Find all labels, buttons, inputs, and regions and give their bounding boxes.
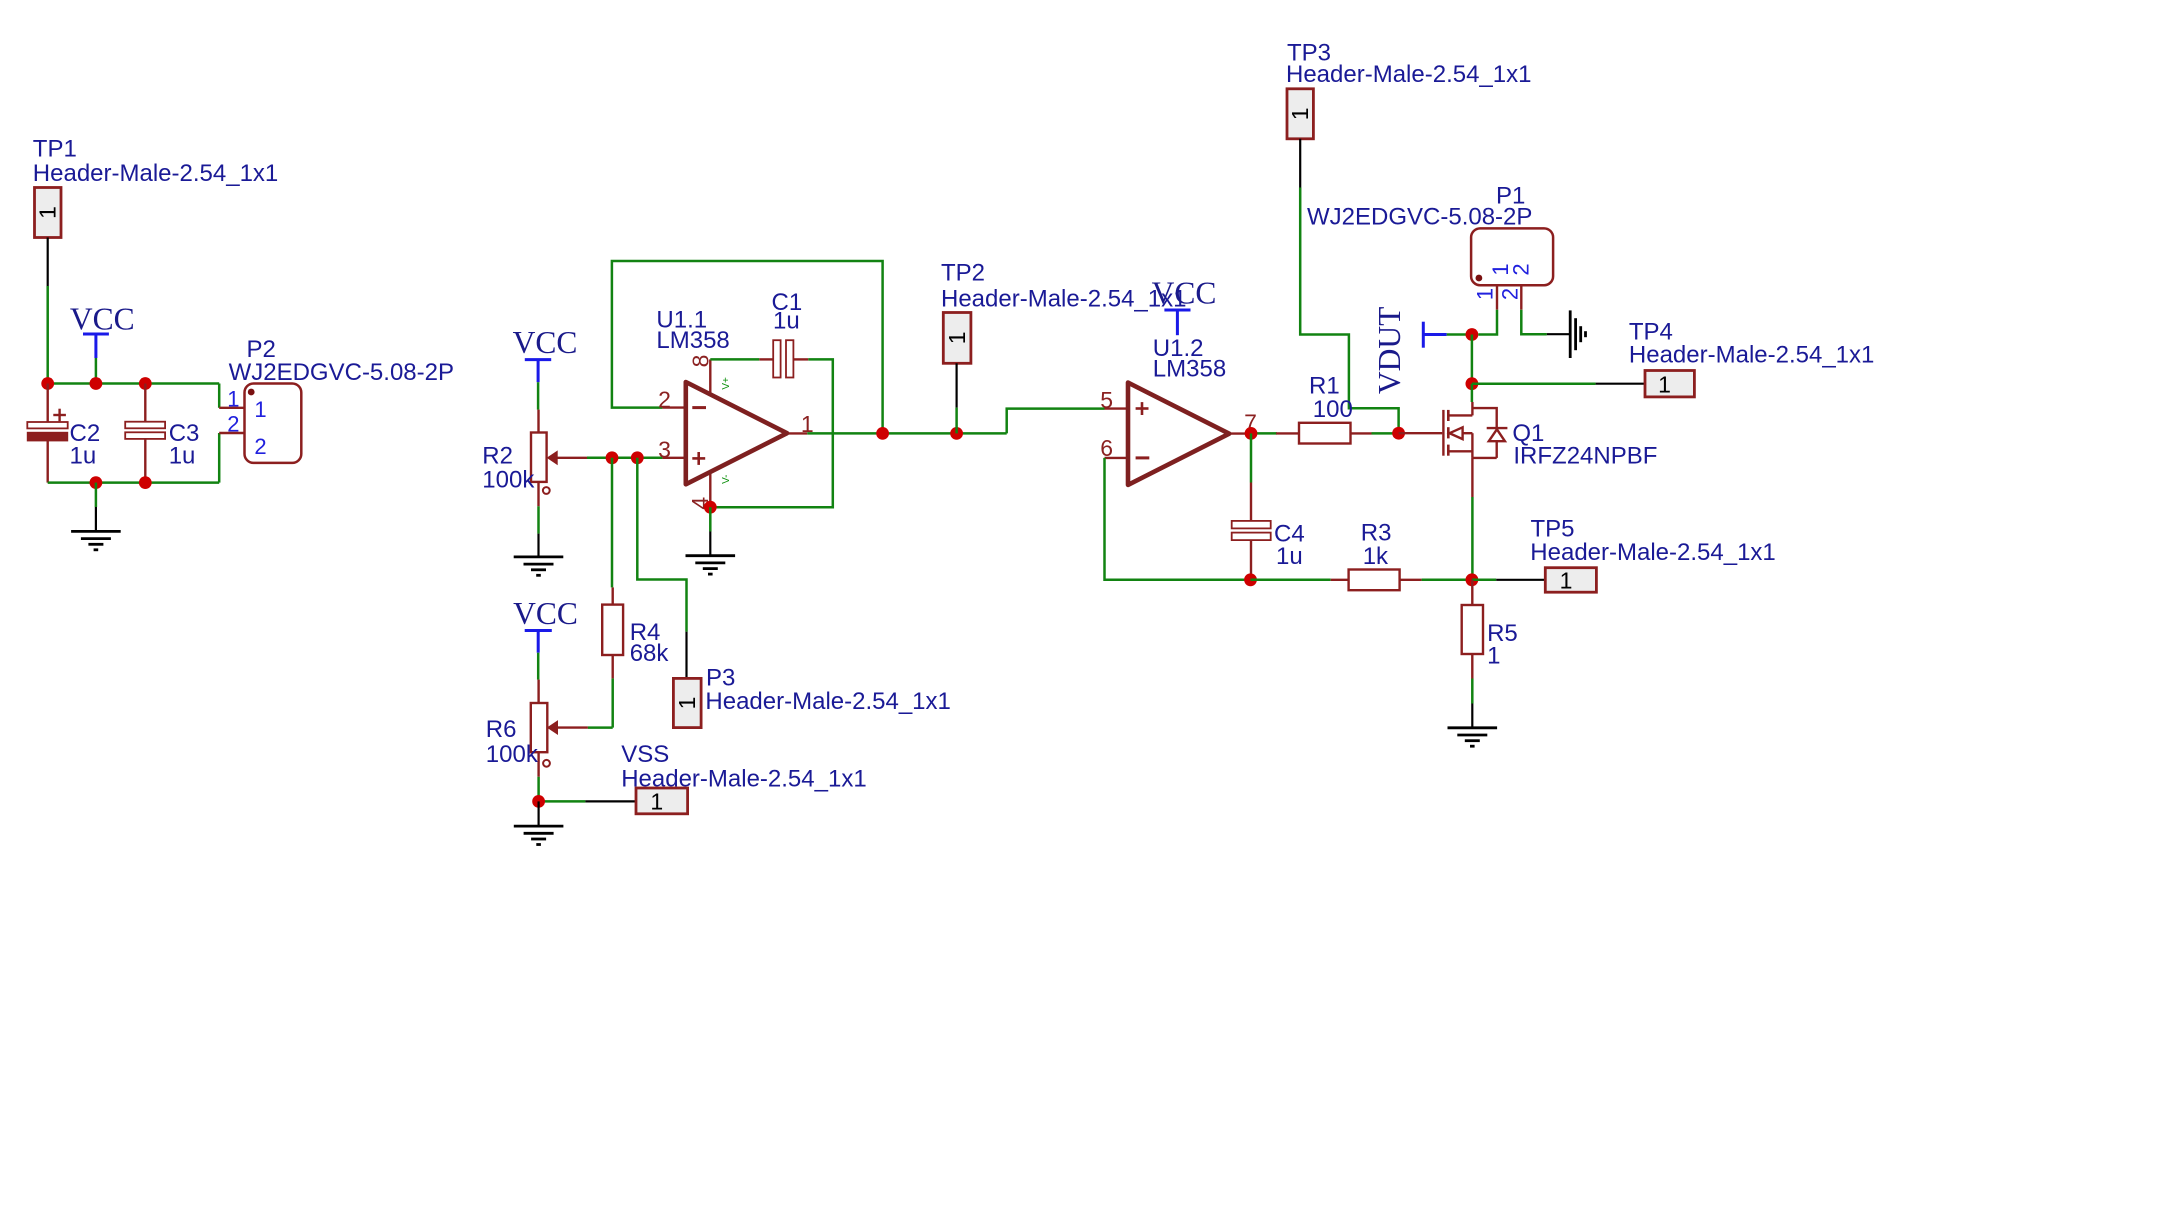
resistor R1 100 <box>1276 423 1371 444</box>
wire R2 wiper to node B <box>587 457 662 460</box>
svg-text:VCC: VCC <box>70 302 135 337</box>
svg-text:1: 1 <box>254 397 266 422</box>
wire pin4 node to ground <box>709 507 712 531</box>
header TP5 <box>1496 568 1596 594</box>
wire VCC to R2 <box>537 382 540 409</box>
svg-text:Header-Male-2.54_1x1: Header-Male-2.54_1x1 <box>705 688 950 715</box>
header TP3 <box>1287 89 1313 188</box>
svg-text:IRFZ24NPBF: IRFZ24NPBF <box>1513 443 1657 470</box>
svg-text:VDUT: VDUT <box>1372 307 1407 395</box>
ground (below R5) <box>1448 704 1498 747</box>
wire feedback loop (output to pin 2) <box>612 261 883 433</box>
op-amp U1.1 LM358 <box>662 359 807 507</box>
svg-text:3: 3 <box>658 436 671 462</box>
resistor R3 1k <box>1331 570 1422 591</box>
wire TP3 to gate node <box>1300 188 1398 434</box>
svg-text:5: 5 <box>1100 387 1113 413</box>
svg-text:100k: 100k <box>486 741 539 768</box>
svg-text:WJ2EDGVC-5.08-2P: WJ2EDGVC-5.08-2P <box>1307 203 1532 230</box>
wire C1 to pin 4 node <box>710 359 833 507</box>
wire R3 to source node <box>1422 579 1472 582</box>
wire to P2 pin 1 <box>218 384 221 408</box>
wire R2 bottom to ground <box>537 506 540 533</box>
junction node source (R3/R5/TP5/Q1) <box>1466 573 1479 586</box>
power flag VCC (net VCC, above U1.2) <box>1152 276 1217 336</box>
ground (U1.1 pin 4) <box>686 532 736 575</box>
junction node gate (R1/TP3/Q1) <box>1392 427 1405 440</box>
wire VSS node to header <box>539 800 586 803</box>
wire VCC to R6 <box>537 653 540 680</box>
svg-text:TP1: TP1 <box>33 135 77 162</box>
svg-text:VCC: VCC <box>513 596 578 631</box>
svg-text:LM358: LM358 <box>1153 355 1226 382</box>
ground (left block) <box>71 507 121 550</box>
svg-text:V-: V- <box>721 474 732 483</box>
header TP4 <box>1596 371 1695 398</box>
wire R1 to gate node <box>1372 432 1399 435</box>
svg-text:Header-Male-2.54_1x1: Header-Male-2.54_1x1 <box>1629 342 1874 369</box>
svg-text:2: 2 <box>254 434 266 459</box>
svg-text:1u: 1u <box>1276 543 1303 570</box>
svg-text:LM358: LM358 <box>656 327 729 354</box>
wire gnd stub <box>95 483 98 507</box>
svg-text:Header-Male-2.54_1x1: Header-Male-2.54_1x1 <box>1530 539 1775 566</box>
header VSS (Header-Male-2.54_1x1) <box>585 788 687 815</box>
wire top VCC rail <box>48 382 220 385</box>
svg-text:2: 2 <box>227 412 239 437</box>
junction node A (TP1/C2) <box>41 377 54 390</box>
svg-text:1: 1 <box>674 697 700 710</box>
junction node B (wiper/R4) <box>606 451 619 464</box>
wire R4 bottom <box>611 678 614 727</box>
wire to P2 pin 2 <box>218 433 221 483</box>
svg-text:VCC: VCC <box>1152 276 1217 311</box>
svg-text:Header-Male-2.54_1x1: Header-Male-2.54_1x1 <box>33 160 278 187</box>
svg-text:TP2: TP2 <box>941 260 985 287</box>
svg-text:1: 1 <box>1487 643 1500 670</box>
junction node drain/TP4 <box>1466 377 1479 390</box>
svg-text:2: 2 <box>658 386 671 412</box>
svg-text:1u: 1u <box>169 443 196 470</box>
wire drain node vertical <box>1471 335 1474 384</box>
wire VCC flag to node A <box>95 358 98 384</box>
capacitor C1 1u <box>759 340 808 377</box>
capacitor C3 (1u) <box>125 384 165 483</box>
junction node output/feedback <box>876 427 889 440</box>
junction node C4/bottom rail <box>1244 573 1257 586</box>
ground (below R2) <box>514 534 564 576</box>
wire drain node to TP4 <box>1472 382 1596 385</box>
svg-text:1: 1 <box>1472 288 1497 300</box>
svg-text:1: 1 <box>650 789 663 815</box>
svg-text:1: 1 <box>1287 107 1313 120</box>
svg-text:8: 8 <box>688 355 714 368</box>
svg-text:VSS: VSS <box>621 741 669 768</box>
svg-text:VCC: VCC <box>513 325 578 360</box>
wire pin 8 to C1 <box>710 358 759 361</box>
wire Q1 source to bottom rail <box>1471 497 1474 580</box>
junction node gnd/C3 <box>139 476 152 489</box>
junction node pin4/C1/gnd <box>704 501 717 514</box>
svg-text:V+: V+ <box>721 377 732 390</box>
junction node C (wiper/P3) <box>631 451 644 464</box>
junction node C3 top <box>139 377 152 390</box>
potentiometer R6 100k <box>531 680 588 777</box>
svg-text:R6: R6 <box>486 716 517 743</box>
wire pin7 node to C4 <box>1250 433 1253 482</box>
svg-text:100: 100 <box>1313 396 1353 423</box>
resistor R4 68k <box>602 587 623 678</box>
svg-text:1k: 1k <box>1363 543 1389 570</box>
svg-text:Header-Male-2.54_1x1: Header-Male-2.54_1x1 <box>941 286 1186 313</box>
wire drain node to Q1 <box>1471 384 1474 402</box>
wire U1.1 output <box>807 432 1006 435</box>
capacitor C4 1u <box>1232 483 1271 580</box>
junction node gnd/C2 <box>90 476 103 489</box>
svg-text:1: 1 <box>35 206 61 219</box>
transistor Q1 IRFZ24NPBF (NMOS) <box>1399 402 1508 497</box>
wire pin 7 to R1 <box>1251 432 1276 435</box>
svg-text:68k: 68k <box>630 640 670 667</box>
svg-text:R2: R2 <box>482 442 513 469</box>
capacitor C2 (polarized 1u) <box>27 384 67 483</box>
junction node pin7/C4 <box>1245 427 1258 440</box>
wire TP2 to output <box>955 408 958 434</box>
svg-text:1u: 1u <box>773 308 800 335</box>
junction node VDUT/P1 <box>1466 328 1479 341</box>
svg-text:1u: 1u <box>70 443 97 470</box>
svg-text:6: 6 <box>1100 435 1113 461</box>
svg-text:1: 1 <box>1658 371 1671 397</box>
power flag VCC (net VCC, left) <box>70 302 135 359</box>
ground (P1 pin2, rotated) <box>1547 310 1586 358</box>
wire C4 node to R3 <box>1251 579 1331 582</box>
wire node C to P3 <box>637 458 686 632</box>
header P3 <box>673 632 701 728</box>
wire bottom gnd rail <box>48 481 220 484</box>
wire P1 pin2 to ground <box>1521 310 1547 335</box>
wire VDUT flag to drain node <box>1447 333 1472 336</box>
svg-text:1: 1 <box>944 332 970 345</box>
svg-text:Header-Male-2.54_1x1: Header-Male-2.54_1x1 <box>1286 61 1531 88</box>
junction node output/TP2 <box>950 427 963 440</box>
wire R6 wiper to R4 <box>588 726 613 729</box>
wire pin7 to R1 <box>1275 432 1278 435</box>
svg-text:1: 1 <box>227 386 239 411</box>
svg-text:2: 2 <box>1498 288 1523 300</box>
op-amp U1.2 LM358 <box>1105 383 1252 485</box>
wire TP1 to node A <box>46 286 49 384</box>
svg-text:100k: 100k <box>482 466 535 493</box>
power flag VCC (net VCC, above R6) <box>513 596 578 653</box>
wire pin 6 to bottom rail <box>1105 458 1251 580</box>
svg-text:1: 1 <box>1560 568 1573 594</box>
svg-text:2: 2 <box>1508 263 1533 275</box>
connector P1 WJ2EDGVC-5.08-2P <box>1471 228 1553 309</box>
wire source node to TP5 <box>1472 579 1496 582</box>
junction node VSS <box>532 795 545 808</box>
header TP1 <box>35 188 62 287</box>
connector P2 WJ2EDGVC-5.08-2P <box>219 384 301 463</box>
wire R6 bottom to VSS node <box>537 777 540 802</box>
wire P1 pin1 to VDUT node <box>1478 310 1497 335</box>
wire output jog to U1.2 pin 5 <box>1007 409 1105 434</box>
power flag VCC (net VCC, above R2) <box>513 325 578 382</box>
potentiometer R2 100k <box>531 410 587 507</box>
resistor R5 1 <box>1462 580 1483 679</box>
wire R4 top to node B <box>611 458 614 588</box>
groups inserted below <box>27 135 454 550</box>
svg-text:WJ2EDGVC-5.08-2P: WJ2EDGVC-5.08-2P <box>229 359 454 386</box>
header TP2 <box>943 313 971 408</box>
net flag VDUT <box>1423 322 1446 348</box>
wire R5 to ground <box>1471 679 1474 704</box>
junction node VCC/C2 <box>90 377 103 390</box>
ground (below VSS node) <box>514 801 564 844</box>
